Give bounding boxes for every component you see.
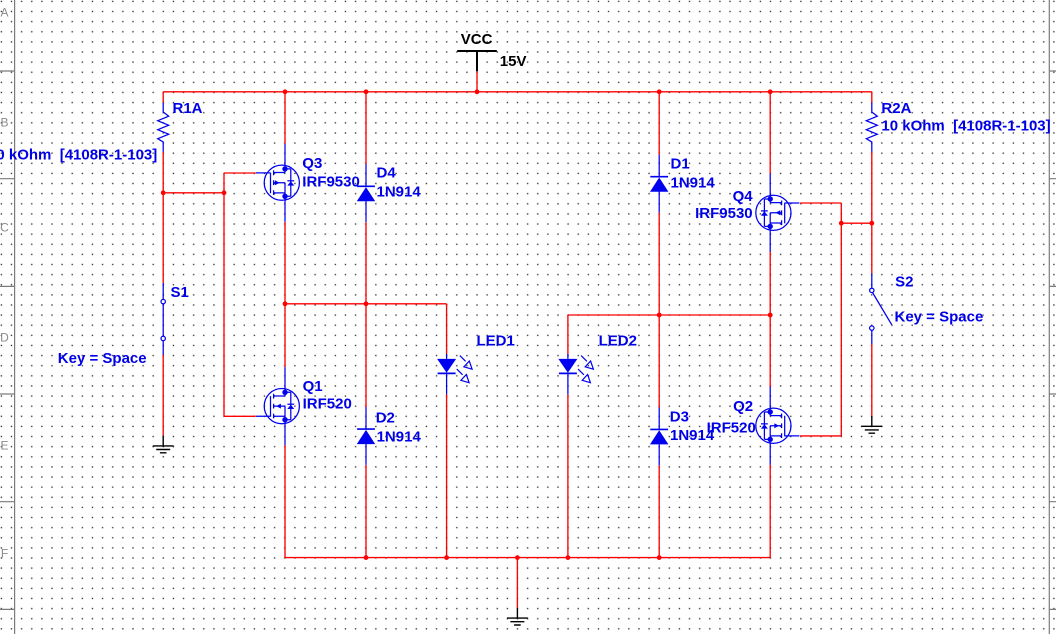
svg-text:Q4: Q4 — [733, 188, 754, 205]
svg-text:1N914: 1N914 — [377, 184, 422, 201]
wire D4-D2 middle segment — [365, 222, 367, 407]
wire D3 lower — [658, 465, 660, 557]
svg-text:Q1: Q1 — [303, 378, 323, 395]
wire Q1 drain from node L — [284, 304, 286, 367]
transistor Q1 (NMOS IRF520) — [256, 367, 352, 445]
wire R2A top lead — [871, 92, 873, 103]
svg-text:A: A — [0, 6, 8, 20]
wire LED2 lower — [567, 395, 569, 558]
LED2 — [558, 333, 637, 395]
svg-text:10 kOhm [4108R-1-103]: 10 kOhm [4108R-1-103] — [881, 117, 1050, 134]
border zone letter E — [0, 439, 8, 453]
switch S2 (open) — [870, 273, 984, 344]
wire D4 branch upper — [365, 92, 367, 165]
wire top VCC bus — [163, 91, 872, 93]
wire D1 lower to node R — [658, 213, 660, 315]
LED1 — [437, 333, 515, 395]
wire LED2 upper — [567, 315, 569, 354]
wire Q3 source to node L — [284, 222, 286, 304]
svg-text:B: B — [0, 116, 8, 130]
wire D3 upper — [658, 315, 660, 408]
border zone letter B — [0, 116, 8, 130]
transistor Q3 (PMOS IRF9530) — [256, 144, 360, 222]
wire S2 to ground — [871, 344, 873, 416]
svg-text:10 kOhm [4108R-1-103]: 10 kOhm [4108R-1-103] — [0, 147, 157, 164]
resistor R1A — [0, 100, 203, 164]
svg-text:D: D — [0, 331, 9, 345]
wire R2A bottom to node — [871, 152, 873, 273]
wire right gate tee vertical (Q4/Q2 gates) — [840, 203, 842, 436]
svg-text:LED2: LED2 — [599, 333, 637, 350]
svg-text:Q3: Q3 — [302, 155, 322, 172]
transistor Q4 (PMOS IRF9530, mirrored) — [695, 174, 799, 252]
wire R1A node to gate tee — [163, 192, 224, 194]
wire Q4 source to node R — [769, 251, 771, 315]
svg-text:IRF520: IRF520 — [303, 396, 352, 413]
wire R1A top lead — [162, 92, 164, 103]
wire node L horizontal — [285, 303, 447, 305]
border zone letter C — [0, 221, 9, 235]
border zone letter D — [0, 331, 9, 345]
svg-text:15V: 15V — [500, 53, 527, 70]
wire R1A bottom to node — [162, 152, 164, 193]
wire D1 upper — [658, 92, 660, 155]
svg-text:D1: D1 — [671, 156, 690, 173]
border zone letter A — [0, 6, 8, 20]
resistor R2A — [866, 100, 1050, 152]
svg-text:IRF9530: IRF9530 — [302, 173, 360, 190]
wire Q4 gate segment — [800, 202, 841, 204]
sheet border right rail — [1049, 0, 1056, 634]
svg-text:Key = Space: Key = Space — [58, 350, 147, 367]
wire bottom bus — [285, 557, 770, 559]
svg-text:C: C — [0, 221, 9, 235]
wire Q1 gate segment — [224, 415, 256, 417]
svg-text:1N914: 1N914 — [671, 175, 716, 192]
diode D2 1N914 — [357, 407, 422, 465]
svg-text:VCC: VCC — [461, 31, 493, 48]
ground bottom center — [507, 608, 528, 625]
wire VCC stem — [476, 71, 478, 92]
wire gate tee vertical (Q3/Q1 gates) — [223, 173, 225, 416]
wire Q2 drain from node R — [769, 315, 771, 387]
wire Q3 drain from bus — [284, 92, 286, 144]
svg-text:IRF9530: IRF9530 — [695, 205, 753, 222]
switch S1 (closed) — [58, 283, 189, 367]
wire R1A node down to S1 — [162, 193, 164, 283]
transistor Q2 (NMOS IRF520, mirrored) — [707, 387, 800, 465]
svg-text:F: F — [1, 547, 8, 561]
svg-text:D4: D4 — [377, 164, 397, 181]
svg-text:R1A: R1A — [173, 100, 203, 117]
wire node R horizontal — [568, 314, 770, 316]
wire LED1 upper — [446, 304, 448, 354]
svg-text:1N914: 1N914 — [670, 427, 715, 444]
diode D1 1N914 — [650, 155, 715, 213]
wire LED1 lower — [446, 394, 448, 557]
border zone letter F — [1, 547, 8, 561]
wire Q2 gate segment — [800, 435, 841, 437]
svg-text:1N914: 1N914 — [377, 429, 422, 446]
svg-text:D2: D2 — [376, 409, 395, 426]
wire R2A node bar — [841, 222, 872, 224]
wire ground tap — [516, 558, 518, 608]
svg-text:R2A: R2A — [881, 100, 911, 117]
diode D4 1N914 — [357, 164, 422, 222]
svg-text:LED1: LED1 — [477, 333, 515, 350]
wire Q4 drain from bus — [769, 92, 771, 174]
svg-text:Q2: Q2 — [733, 398, 753, 415]
svg-text:S2: S2 — [895, 274, 913, 291]
wire Q1 source to bottom bus — [284, 445, 286, 557]
svg-text:Key = Space: Key = Space — [895, 309, 984, 326]
sheet border left rail — [0, 0, 15, 634]
diode D3 1N914 — [650, 407, 715, 465]
svg-text:D3: D3 — [670, 408, 689, 425]
wire Q2 source to bottom bus — [769, 465, 771, 558]
wire Q3 gate segment — [224, 172, 256, 174]
wire S1 to ground — [162, 355, 164, 436]
ground under S1 — [153, 436, 174, 453]
svg-text:S1: S1 — [171, 284, 189, 301]
svg-text:E: E — [0, 439, 8, 453]
wire D2 lower segment — [365, 465, 367, 558]
power VCC symbol — [457, 31, 526, 71]
ground under S2 — [861, 416, 882, 433]
